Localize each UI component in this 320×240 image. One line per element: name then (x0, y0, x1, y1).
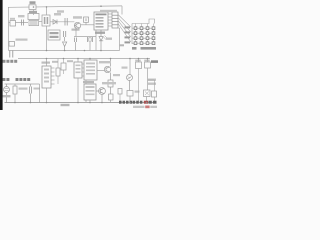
pin stubs IC1 right (108, 14, 112, 26)
left black border bar (0, 0, 3, 110)
capacitor C8 (30, 84, 41, 103)
keypad left bus (131, 24, 133, 45)
component column (56, 59, 60, 85)
label C11 (144, 60, 150, 62)
resistor R2 (81, 17, 96, 25)
label below rail (61, 104, 70, 106)
lamp HL (122, 67, 133, 91)
music IC box (42, 15, 50, 26)
capacitor C9 top (145, 59, 151, 91)
wire branch left (9, 22, 29, 24)
switch SB1 (10, 18, 16, 26)
watermark red chars (144, 101, 148, 104)
row labels K (125, 26, 131, 43)
wire right vertical (119, 28, 121, 51)
box C amplifier (84, 84, 96, 103)
box B (84, 59, 97, 103)
label CW9300 (83, 81, 94, 83)
keypad top wire (132, 19, 155, 24)
label IC4 (42, 62, 51, 64)
receiver caption labels (3, 78, 31, 81)
wire left bus (8, 7, 10, 50)
capacitor C2 (65, 18, 67, 26)
LED indicator (9, 39, 28, 47)
capacitor C3 osc (75, 38, 77, 51)
key switches 4x4 (134, 27, 155, 45)
IR receiver head (3, 84, 11, 103)
resistor R1 (29, 1, 37, 13)
label small1 (52, 61, 58, 63)
watermark light line (133, 106, 157, 108)
label R15 (135, 60, 141, 62)
resistor R14 top (136, 59, 142, 103)
label +6V (151, 60, 158, 63)
resistor R12 small (118, 89, 122, 103)
transistor VT2 (99, 59, 111, 81)
transistor VT3 (96, 82, 116, 103)
wire right drop (121, 6, 123, 15)
label R10 (113, 74, 120, 76)
small box right (152, 91, 157, 97)
wire middle row (50, 21, 74, 23)
crystal XT (88, 37, 93, 51)
keypad feed wires (118, 15, 131, 43)
wire lamp branch (129, 59, 131, 75)
buzzer element hatched (29, 21, 39, 26)
wire mic bus (5, 83, 40, 85)
capacitor C10 (127, 91, 140, 103)
wire IC1 ground leg (95, 30, 97, 51)
keypad column wires (136, 24, 154, 44)
IC4 box (42, 59, 51, 103)
resistor R13 (13, 84, 28, 103)
transistor VT1 (73, 16, 82, 28)
IC1 box (94, 12, 108, 34)
resistor R11 (109, 94, 114, 103)
wire buzzer-music (39, 21, 42, 23)
junction dots (14, 5, 148, 103)
small box T1 (61, 59, 66, 75)
wire R1 to buzzer (33, 10, 35, 15)
diode VD1 (53, 13, 61, 24)
right vertical wire (148, 80, 155, 103)
wire vertical left (39, 84, 41, 103)
watermark light red (145, 106, 149, 109)
label IC2 type (100, 10, 117, 12)
caption (a) (132, 47, 156, 50)
keypad row wires (132, 28, 154, 43)
label below stubs (3, 60, 18, 63)
wire oscillator bus (74, 36, 96, 38)
IR LED VD3 (99, 30, 112, 51)
paper background (0, 0, 160, 110)
resistor R9 (108, 80, 113, 87)
label K16 (119, 44, 124, 46)
wire center vertical upper (46, 7, 48, 15)
label C2 (72, 29, 80, 31)
watermark dark line (119, 101, 157, 104)
pin box (112, 12, 118, 28)
diode VD2 (63, 42, 67, 51)
speech module box (48, 30, 60, 40)
wire top supply rail (8, 6, 122, 7)
label under rail mid (57, 10, 64, 12)
box A (74, 59, 82, 103)
wire center vertical lower (46, 26, 48, 51)
wire bottom rail (5, 102, 157, 104)
capacitor C3 (64, 31, 66, 41)
wire receiver top rail (18, 58, 150, 60)
pin stubs IC4 (51, 68, 55, 84)
speaker BL2 box (144, 90, 151, 103)
capacitor C1 (18, 15, 25, 26)
IR link stubs (10, 51, 13, 58)
buzzer box HTD (28, 14, 39, 20)
pin stubs A-B (82, 64, 84, 76)
wire VT1 emitter (75, 29, 77, 37)
wire B to VT2 (97, 70, 104, 72)
label small2 (67, 60, 73, 62)
label BL2 (148, 79, 156, 85)
wire bottom rail transmitter (9, 50, 120, 52)
